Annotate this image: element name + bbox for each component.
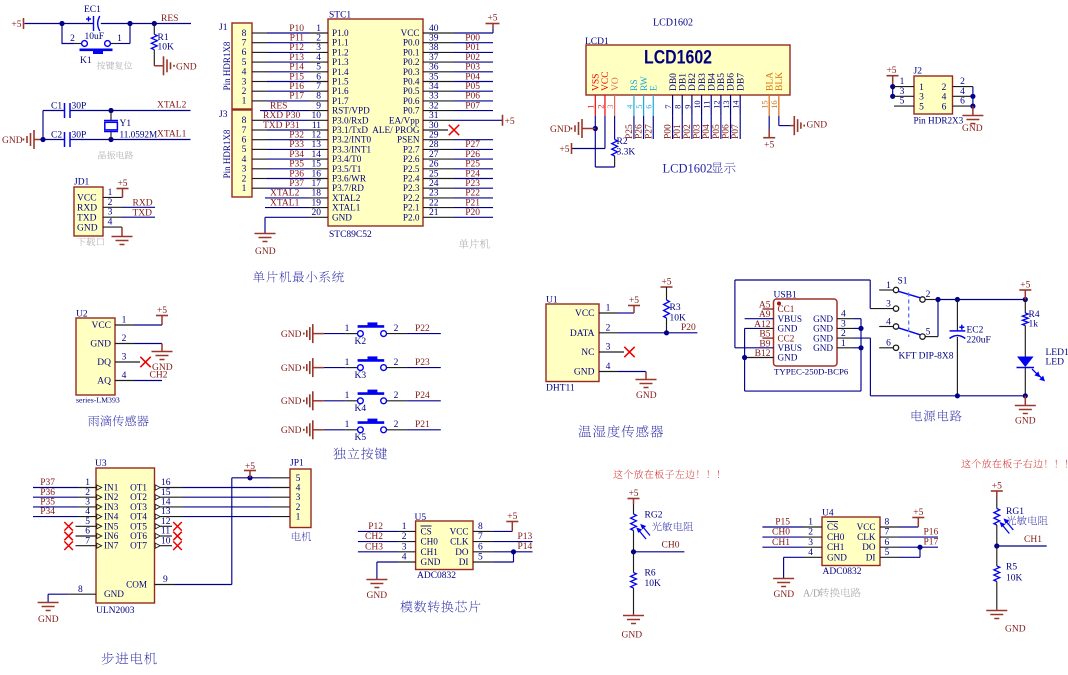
svg-text:6: 6 (885, 538, 890, 548)
wire J2 pin4 (953, 95, 973, 97)
svg-text:3.3K: 3.3K (617, 148, 636, 158)
wire OT1 to JP1 (160, 487, 183, 489)
svg-text:P2.4: P2.4 (403, 174, 420, 184)
svg-text:2: 2 (394, 324, 399, 334)
caption guangmin-dianzu RG1 (1006, 516, 1047, 526)
wire P35 to IN3 (33, 506, 78, 508)
svg-text:16: 16 (312, 169, 322, 179)
svg-text:CH0: CH0 (662, 541, 680, 551)
svg-text:RXD P30: RXD P30 (263, 111, 300, 121)
ground J2 (972, 106, 974, 115)
caption wenshidu-chuanganqi (579, 425, 664, 438)
usb pin 4 stub (837, 318, 854, 320)
svg-text:P0.2: P0.2 (403, 57, 420, 67)
svg-text:COM: COM (126, 580, 147, 590)
node LED gnd (1023, 393, 1028, 398)
wire U3 gnd (69, 593, 96, 595)
svg-text:1k: 1k (1029, 320, 1039, 330)
wire P11 net (252, 42, 267, 44)
node EC2 top (955, 297, 960, 302)
wire CH3 to U5 (358, 551, 398, 553)
svg-text:K5: K5 (355, 433, 367, 443)
svg-text:2: 2 (402, 532, 407, 542)
pin IN6 no-connect (76, 535, 97, 537)
switch S1 lever 1-2 (898, 291, 920, 298)
svg-text:P3.6/WR: P3.6/WR (332, 174, 367, 184)
node J2 pin3 (890, 94, 895, 99)
svg-text:GND: GND (38, 615, 59, 625)
svg-text:P02: P02 (683, 124, 693, 139)
wire lcd net P03 (701, 116, 703, 139)
svg-text:4: 4 (122, 371, 127, 381)
svg-text:3: 3 (606, 105, 615, 109)
svg-text:P0.1: P0.1 (403, 47, 420, 57)
lcd pin stub 1 (594, 95, 596, 116)
svg-text:P3.2/INT0: P3.2/INT0 (332, 135, 371, 145)
svg-text:4: 4 (242, 155, 247, 165)
wire lcd net P06 (730, 116, 732, 139)
svg-text:10K: 10K (645, 579, 662, 589)
svg-text:DB6: DB6 (727, 73, 737, 91)
pin OT6 no-connect (160, 535, 172, 537)
svg-text:GND: GND (827, 552, 847, 562)
lcd pin stub 7 (672, 95, 674, 116)
wire DATA P20 (599, 332, 618, 334)
wire P23 net (423, 187, 454, 189)
svg-text:K3: K3 (355, 371, 367, 381)
ground U1 (645, 372, 647, 380)
svg-text:2: 2 (242, 87, 247, 97)
svg-text:GND: GND (104, 589, 124, 599)
pin IN5 no-connect (76, 525, 97, 527)
svg-text:4: 4 (242, 68, 247, 78)
svg-text:6: 6 (478, 542, 483, 552)
wire P10 net (252, 32, 267, 34)
svg-text:R6: R6 (645, 569, 656, 579)
svg-text:P2.1: P2.1 (403, 203, 420, 213)
overline CS U5 (421, 525, 432, 527)
usb pin 1 stub (837, 347, 854, 349)
svg-text:4: 4 (808, 548, 813, 558)
svg-text:12: 12 (712, 100, 721, 108)
svg-text:40: 40 (429, 24, 439, 34)
wire P01 net (423, 51, 454, 53)
pin IN7 no-connect (76, 545, 97, 547)
wire OT4 to JP1 (160, 516, 183, 518)
power +5 mcu (486, 23, 500, 25)
svg-text:P2.5: P2.5 (403, 164, 420, 174)
wire XTAL1 to mcu (265, 207, 309, 209)
pin2 U2 gnd (115, 343, 134, 345)
wire PSEN pin29 (423, 139, 454, 141)
svg-text:+5: +5 (559, 145, 569, 155)
svg-text:8: 8 (316, 92, 321, 102)
led LED1 (1017, 357, 1034, 368)
svg-text:5: 5 (635, 105, 644, 109)
svg-text:16: 16 (770, 100, 779, 108)
svg-text:CH1: CH1 (772, 538, 790, 548)
node lcd gnd (593, 126, 598, 131)
svg-text:P3.0/RxD: P3.0/RxD (332, 115, 369, 125)
svg-text:220uF: 220uF (967, 336, 991, 346)
svg-text:3: 3 (242, 77, 247, 87)
svg-text:38: 38 (429, 43, 439, 53)
svg-text:3: 3 (242, 165, 247, 175)
svg-text:OT1: OT1 (130, 483, 147, 493)
wire P15 net (252, 81, 267, 83)
wire GND B12 (745, 357, 774, 359)
pin1 U2 +5 (115, 324, 134, 326)
wire U5 DI join (473, 561, 492, 563)
pin1 U1 +5 (599, 312, 618, 314)
svg-text:6: 6 (886, 339, 891, 349)
svg-text:6: 6 (645, 105, 654, 109)
wire mcu GND (309, 216, 328, 218)
ground JD1 (121, 227, 123, 236)
svg-text:8: 8 (674, 105, 683, 109)
node xtal1 (108, 137, 113, 142)
svg-text:P20: P20 (681, 323, 696, 333)
wire RG2 to CH0 (633, 531, 635, 552)
wire VBUS A9 (745, 318, 774, 320)
svg-text:2: 2 (942, 83, 947, 93)
power +5 U1 (633, 306, 635, 314)
svg-text:4: 4 (402, 553, 407, 563)
svg-text:DO: DO (862, 542, 876, 552)
svg-text:RG1: RG1 (1006, 507, 1024, 517)
wire P26 net (423, 158, 454, 160)
svg-text:P27: P27 (465, 140, 480, 150)
svg-text:P0.5: P0.5 (403, 86, 420, 96)
svg-text:E: E (649, 85, 659, 91)
svg-text:P26: P26 (465, 150, 480, 160)
svg-text:P22: P22 (415, 324, 430, 334)
svg-text:LCD1602: LCD1602 (644, 48, 712, 69)
svg-text:RXD: RXD (133, 198, 153, 208)
wire P17 net (252, 100, 267, 102)
svg-text:XTAL1: XTAL1 (270, 198, 300, 208)
wire U5 VCC +5 (473, 530, 492, 532)
svg-text:VCC: VCC (601, 71, 611, 91)
wire P07 net (423, 110, 454, 112)
svg-text:P3.1/TxD: P3.1/TxD (332, 125, 368, 135)
svg-text:1: 1 (345, 391, 350, 401)
lcd pin stub 8 (681, 95, 683, 116)
svg-text:2: 2 (960, 77, 965, 87)
svg-text:DI: DI (866, 552, 876, 562)
photoresistor RG1 (994, 509, 1000, 526)
svg-text:GND: GND (255, 247, 276, 257)
svg-text:10uF: 10uF (85, 32, 105, 42)
svg-text:TYPEC-250D-BCP6: TYPEC-250D-BCP6 (774, 367, 849, 377)
svg-text:P17: P17 (289, 92, 304, 102)
svg-text:OT2: OT2 (130, 492, 147, 502)
svg-text:OT3: OT3 (130, 502, 147, 512)
svg-text:Pin HDR2X3: Pin HDR2X3 (914, 116, 964, 126)
svg-text:RST/VPD: RST/VPD (332, 106, 370, 116)
wire K4 to P24 (387, 400, 407, 402)
svg-text:RS: RS (630, 79, 640, 91)
power +5 U4 (917, 518, 919, 528)
svg-text:5: 5 (85, 517, 90, 527)
svg-text:12: 12 (312, 131, 322, 141)
svg-text:BLK: BLK (775, 72, 785, 91)
svg-text:P26: P26 (635, 124, 645, 139)
svg-text:3: 3 (841, 319, 846, 329)
svg-text:P24: P24 (415, 391, 430, 401)
power +5 RG1 (991, 490, 1003, 492)
svg-text:VCC: VCC (77, 194, 97, 204)
svg-text:RES: RES (161, 14, 178, 24)
svg-text:Pin HDR1X8: Pin HDR1X8 (222, 41, 232, 90)
svg-text:P36: P36 (40, 488, 55, 498)
svg-text:4: 4 (108, 218, 113, 228)
svg-text:K1: K1 (80, 56, 92, 66)
svg-text:RES: RES (270, 101, 287, 111)
wire C2 to XTAL1 (70, 139, 191, 141)
svg-text:P2.0: P2.0 (403, 212, 420, 222)
svg-text:P24: P24 (465, 169, 480, 179)
svg-text:BLA: BLA (765, 72, 775, 91)
pushbutton K5 (358, 427, 387, 433)
svg-text:6: 6 (242, 136, 247, 146)
usb pin 3 stub (837, 327, 854, 329)
wire EC1 to RES node (101, 23, 130, 25)
svg-text:5: 5 (296, 474, 301, 484)
svg-text:P1.7: P1.7 (332, 96, 349, 106)
svg-text:P16: P16 (289, 82, 304, 92)
svg-text:P04: P04 (702, 124, 712, 139)
svg-text:P13: P13 (518, 532, 533, 542)
caption anjian-fuwei (97, 61, 132, 69)
svg-text:7: 7 (664, 105, 673, 109)
svg-text:1: 1 (606, 304, 611, 314)
svg-text:4: 4 (296, 484, 301, 494)
svg-text:DB5: DB5 (717, 73, 727, 91)
svg-text:30: 30 (429, 121, 439, 131)
svg-text:P00: P00 (465, 34, 480, 44)
wire RXD P30 net (252, 119, 267, 121)
svg-text:13: 13 (722, 100, 731, 108)
wire P36 net (252, 178, 267, 180)
svg-text:P1.3: P1.3 (332, 57, 349, 67)
svg-text:28: 28 (429, 140, 439, 150)
wire usb right gnd joins (854, 318, 862, 320)
svg-text:5: 5 (478, 553, 483, 563)
wire K5 to P21 (387, 429, 407, 431)
svg-text:GND: GND (1015, 417, 1036, 427)
power +5 motor (244, 470, 256, 472)
svg-text:2: 2 (70, 34, 75, 44)
svg-text:1: 1 (841, 339, 846, 349)
svg-text:ADC0832: ADC0832 (823, 567, 862, 577)
node R4 top (1023, 297, 1028, 302)
svg-text:PSEN: PSEN (397, 135, 420, 145)
svg-text:GND: GND (281, 364, 302, 374)
svg-text:16: 16 (161, 478, 171, 488)
wire C1 to XTAL2 (70, 110, 191, 112)
switch S1 lever 4-5 (898, 328, 920, 335)
svg-text:OT6: OT6 (130, 531, 147, 541)
svg-text:18: 18 (312, 189, 322, 199)
svg-text:+5: +5 (507, 512, 517, 522)
caption danpianji-zuixiao-xitong (253, 271, 344, 283)
svg-text:32: 32 (429, 101, 439, 111)
svg-text:+5: +5 (629, 296, 639, 306)
wire lcd net P07 (739, 116, 741, 139)
svg-text:DO: DO (455, 547, 469, 557)
svg-text:P2.3: P2.3 (403, 183, 420, 193)
wire U4 DO P17 (880, 546, 899, 548)
svg-text:DATA: DATA (570, 329, 595, 339)
svg-text:7: 7 (242, 126, 247, 136)
caption xiazaikou (77, 237, 104, 246)
svg-text:1: 1 (85, 478, 90, 488)
wire lcd net P01 (681, 116, 683, 139)
wire P37 to IN1 (33, 487, 78, 489)
svg-text:4: 4 (85, 507, 90, 517)
svg-text:27: 27 (429, 150, 439, 160)
wire RES net (130, 23, 191, 25)
wire P13 net (252, 61, 267, 63)
svg-text:VCC: VCC (401, 28, 420, 38)
svg-text:P0.0: P0.0 (403, 38, 420, 48)
svg-text:R1: R1 (158, 33, 169, 43)
svg-text:CH1: CH1 (1024, 535, 1042, 545)
node CH1 (994, 543, 999, 548)
svg-text:VSS: VSS (592, 74, 602, 91)
svg-text:P25: P25 (625, 124, 635, 139)
wire U4 DI join (880, 556, 899, 558)
svg-text:P21: P21 (415, 420, 430, 430)
svg-text:CLK: CLK (450, 537, 469, 547)
caption jingzhen-dianlu (98, 151, 133, 159)
svg-text:P00: P00 (664, 124, 674, 139)
wire U4 CLK P16 (880, 536, 899, 538)
svg-text:GND: GND (90, 340, 111, 350)
svg-text:3: 3 (402, 542, 407, 552)
svg-text:1: 1 (808, 518, 813, 528)
ground bus bottom (870, 395, 1025, 397)
svg-text:OT5: OT5 (130, 521, 147, 531)
svg-text:7: 7 (478, 532, 483, 542)
svg-text:EC2: EC2 (967, 326, 984, 336)
svg-text:P01: P01 (465, 43, 480, 53)
caption duli-anjian (333, 448, 387, 460)
no-connect X U2 (140, 357, 150, 367)
svg-text:VCC: VCC (857, 522, 876, 532)
svg-text:VBUS: VBUS (778, 343, 803, 353)
pin4 U1 gnd (599, 371, 618, 373)
pin 1 JD1 (103, 196, 123, 198)
svg-text:1: 1 (122, 316, 127, 326)
svg-text:+5: +5 (1020, 281, 1030, 291)
wire P20 net (423, 216, 454, 218)
node xtal2 (108, 108, 113, 113)
wire GND A12 (763, 327, 774, 329)
svg-text:LCD1602: LCD1602 (663, 162, 713, 176)
wire P37 net (252, 187, 267, 189)
wire P25 net (423, 168, 454, 170)
svg-text:P14: P14 (289, 63, 304, 73)
svg-text:1: 1 (117, 34, 122, 44)
wire S1 pin5 up (925, 336, 938, 338)
wire EA/Vpp to +5 (423, 119, 454, 121)
svg-text:P36: P36 (289, 169, 304, 179)
lcd pin stub 2 (604, 95, 606, 116)
wire OT3 to JP1 (160, 506, 183, 508)
wire U5 DO P14 (473, 551, 492, 553)
svg-text:STC89C52: STC89C52 (329, 230, 372, 240)
svg-text:J3: J3 (219, 110, 228, 120)
wire S1 pin6 (879, 347, 893, 349)
lcd pin stub 12 (720, 95, 722, 116)
wire usb gnd loop (745, 390, 861, 392)
node J2 pin6 join (970, 104, 975, 109)
svg-text:7: 7 (242, 39, 247, 49)
svg-text:8: 8 (885, 518, 890, 528)
svg-text:P3.7/RD: P3.7/RD (332, 183, 364, 193)
no-connect X U1 (624, 347, 634, 357)
ground U4 (773, 579, 794, 587)
wire gnd to K3 (313, 367, 324, 369)
lcd pin stub 14 (739, 95, 741, 116)
svg-text:NC: NC (581, 348, 594, 358)
svg-text:+5: +5 (764, 140, 774, 150)
svg-text:5: 5 (900, 97, 905, 107)
svg-text:29: 29 (429, 131, 439, 141)
svg-text:P35: P35 (289, 160, 304, 170)
wire gnd to K2 (313, 333, 324, 335)
svg-text:P32: P32 (289, 131, 304, 141)
svg-text:R5: R5 (1006, 563, 1017, 573)
svg-text:P05: P05 (712, 124, 722, 139)
node reset-right (152, 21, 157, 26)
svg-text:J1: J1 (219, 23, 228, 33)
svg-text:K2: K2 (355, 337, 367, 347)
wire P14 net (252, 71, 267, 73)
svg-text:S1: S1 (898, 277, 908, 287)
svg-text:GND: GND (813, 343, 833, 353)
node crystal gnd (40, 137, 45, 142)
svg-text:+5: +5 (11, 20, 21, 30)
switch S1 dashed link (908, 293, 910, 338)
svg-text:CH2: CH2 (150, 370, 168, 380)
wire lcd net P27 (652, 116, 654, 139)
wire gnd to K5 (313, 429, 324, 431)
wire P34 net (252, 158, 267, 160)
wire J2 pin3 (893, 95, 914, 97)
resistor R3 pullup (661, 286, 673, 288)
power +5 JD1 (117, 188, 129, 190)
svg-text:3: 3 (108, 208, 113, 218)
svg-text:GND: GND (421, 557, 441, 567)
svg-text:9: 9 (683, 105, 692, 109)
svg-text:10K: 10K (158, 43, 175, 53)
wire +5 to EC1 (25, 23, 94, 25)
svg-text:XTAL1: XTAL1 (332, 203, 361, 213)
photoresistor RG2 (631, 514, 637, 531)
svg-text:CH0: CH0 (421, 537, 439, 547)
wire CH2 to U5 (358, 541, 398, 543)
wire P06 net (423, 100, 454, 102)
svg-text:6: 6 (942, 102, 947, 112)
node EC2 bottom (955, 393, 960, 398)
svg-text:GND: GND (281, 426, 302, 436)
svg-text:IN3: IN3 (104, 502, 119, 512)
svg-text:1: 1 (919, 83, 924, 93)
note zhege-youbian (961, 459, 1067, 468)
